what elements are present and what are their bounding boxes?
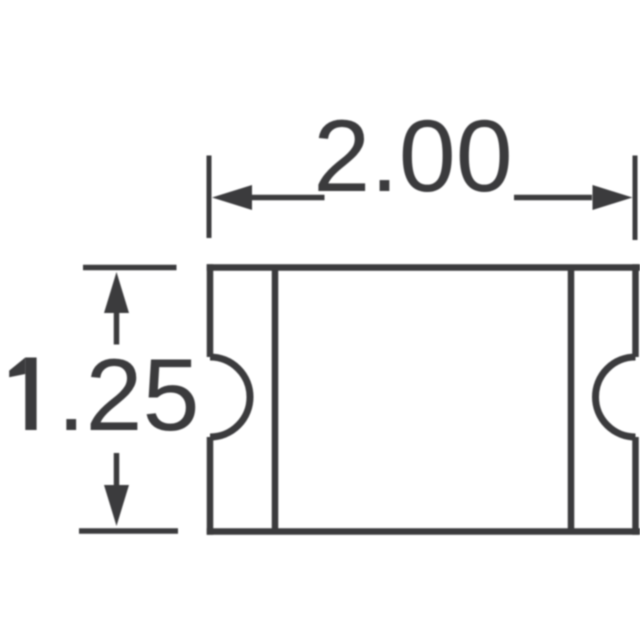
- svg-text:2.00: 2.00: [313, 98, 513, 213]
- svg-text:.25: .25: [57, 337, 200, 452]
